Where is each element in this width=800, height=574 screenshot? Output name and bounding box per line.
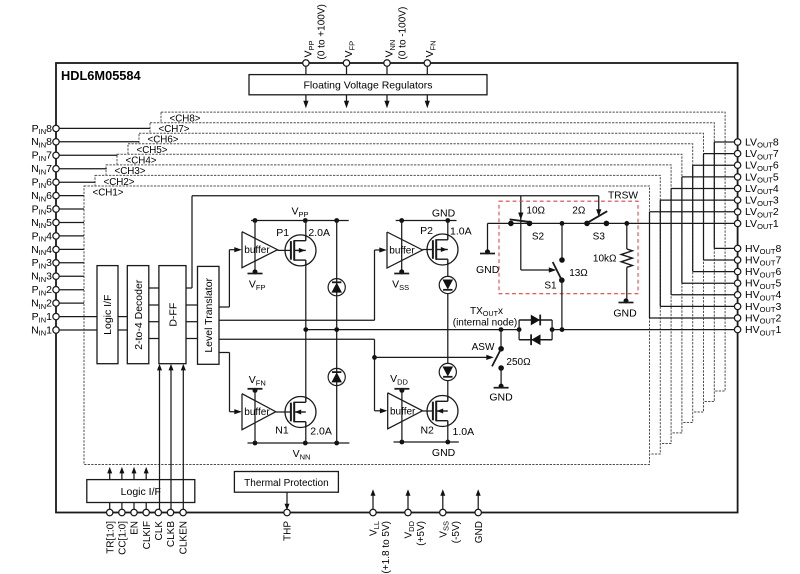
- wire channel CH4 output stub: [670, 189, 672, 295]
- node HVOUT8 output pin: [714, 247, 734, 249]
- wire regulator output arrow: [305, 95, 307, 105]
- wire LT to N2 buffer and ASW: [219, 338, 375, 340]
- channel box CH5: [128, 144, 693, 423]
- svg-text:GND: GND: [613, 308, 637, 320]
- node NIN1 input pin: [59, 329, 97, 331]
- wire regulator output arrow: [426, 95, 428, 105]
- node LVOUT7 output pin: [704, 153, 735, 155]
- wire regulator output arrow: [386, 95, 388, 105]
- wire channel CH5 output stub: [681, 177, 683, 283]
- svg-text:GND: GND: [432, 208, 456, 220]
- switch S2: [508, 221, 514, 227]
- wire CLKEN to D-FF: [182, 369, 184, 513]
- node CC[1:0] pin: [121, 503, 123, 513]
- block 2-to-4 Decoder: [127, 266, 149, 364]
- ground below 10k: [624, 298, 629, 303]
- wire P1 drain to TX node: [305, 266, 307, 330]
- wire main switch line: [488, 222, 735, 224]
- node NIN7 input pin: [59, 168, 107, 170]
- channel box CH8: [161, 112, 725, 391]
- block Thermal Protection: [234, 472, 338, 493]
- node NIN2 input pin: [59, 302, 84, 304]
- svg-text:N2: N2: [420, 425, 434, 437]
- node HVOUT1 output pin: [734, 326, 740, 332]
- svg-text:buffer: buffer: [389, 246, 415, 257]
- node HVOUT4 output pin: [671, 294, 734, 296]
- svg-text:13Ω: 13Ω: [569, 268, 588, 279]
- svg-text:S1: S1: [544, 280, 557, 291]
- diode D3 (down): [439, 276, 456, 293]
- wire regulator output arrow: [346, 95, 348, 105]
- wire control input arrow: [109, 471, 111, 480]
- node VFP terminal: [346, 66, 348, 75]
- svg-text:CC[1:0]: CC[1:0]: [118, 521, 129, 555]
- wire LT to P1 buffer: [219, 306, 229, 308]
- wire P2 drain down: [447, 265, 449, 396]
- node VSS pin: [442, 494, 444, 513]
- wire P2 column to GND rail: [447, 221, 449, 235]
- svg-text:Thermal Protection: Thermal Protection: [244, 478, 328, 489]
- wire CLKB to D-FF: [170, 369, 172, 513]
- node CLKIF pin: [145, 503, 147, 513]
- node VSS: [399, 269, 404, 274]
- svg-text:1.0A: 1.0A: [450, 226, 472, 238]
- node VPP terminal: [305, 66, 307, 75]
- node NIN3 input pin: [59, 275, 84, 277]
- wire D-FF to Level Translator: [186, 304, 198, 306]
- node GND pin: [477, 494, 479, 513]
- svg-text:buffer: buffer: [244, 407, 270, 418]
- block Level Translator: [198, 266, 220, 364]
- switch S1: [560, 221, 565, 226]
- channel box CH3: [106, 165, 671, 444]
- node GND rail (N2 side): [394, 441, 459, 443]
- block Logic I/F (bottom): [87, 480, 195, 503]
- node EN pin: [133, 503, 135, 513]
- node NIN5 input pin: [59, 222, 84, 224]
- svg-text:THP: THP: [283, 521, 294, 541]
- chip outline HDL6M05584: [56, 63, 738, 513]
- wire TX node to N1 drain: [305, 330, 307, 397]
- svg-text:Logic I/F: Logic I/F: [102, 295, 114, 335]
- svg-text:GND: GND: [474, 521, 485, 543]
- node VFP: [253, 269, 258, 274]
- svg-text:HDL6M05584: HDL6M05584: [61, 68, 142, 83]
- wire channel CH8 output stub: [713, 142, 715, 248]
- node NIN4 input pin: [59, 248, 84, 250]
- svg-text:buffer: buffer: [390, 406, 416, 417]
- node PIN5 input pin: [59, 208, 84, 210]
- node VPP rail: [251, 220, 349, 222]
- channel box CH2: [95, 175, 660, 454]
- svg-text:S2: S2: [532, 231, 545, 242]
- svg-text:CLKEN: CLKEN: [179, 521, 190, 554]
- svg-text:(+5V): (+5V): [416, 521, 427, 546]
- svg-text:CLKB: CLKB: [166, 521, 177, 547]
- node CLK pin: [155, 509, 161, 515]
- svg-text:S3: S3: [593, 231, 606, 242]
- transistor N1: [285, 397, 316, 428]
- svg-text:10kΩ: 10kΩ: [593, 253, 617, 264]
- node PIN8 input pin: [59, 127, 150, 129]
- ground below ASW: [499, 384, 504, 389]
- node NIN8 input pin: [59, 141, 139, 143]
- node HVOUT7 output pin: [704, 259, 735, 261]
- node LVOUT5 output pin: [682, 176, 735, 178]
- switch S3: [584, 221, 590, 227]
- svg-text:CLKIF: CLKIF: [142, 521, 153, 549]
- wire channel CH7 output stub: [703, 154, 705, 260]
- svg-text:P2: P2: [420, 225, 433, 237]
- wire channel CH2 output stub: [649, 212, 651, 318]
- node TR[1:0] pin: [109, 503, 111, 513]
- node HVOUT3 output pin: [660, 305, 734, 307]
- node TXOUT internal line: [306, 329, 519, 331]
- svg-text:Level Translator: Level Translator: [203, 277, 215, 352]
- wire Decoder to D-FF: [149, 287, 159, 289]
- node CLKB pin: [167, 509, 173, 515]
- channel box CH6: [139, 133, 704, 412]
- svg-text:Floating Voltage Regulators: Floating Voltage Regulators: [304, 80, 433, 92]
- wire diode column left: [336, 221, 338, 444]
- transistor P2: [427, 234, 458, 265]
- wire control input arrow: [145, 471, 147, 480]
- diode pair D5/D6: [518, 320, 520, 340]
- wire N1 source to VNN rail: [305, 428, 307, 444]
- wire P1 source to VPP rail: [305, 221, 307, 236]
- node THP pin: [286, 492, 288, 506]
- svg-text:(internal node): (internal node): [453, 317, 517, 328]
- wire S3 control: [598, 196, 600, 212]
- wire LogicIF to Decoder: [118, 316, 127, 318]
- node HVOUT5 output pin: [682, 282, 735, 284]
- block Logic I/F (channel): [97, 266, 118, 364]
- node PIN4 input pin: [59, 235, 84, 237]
- node LVOUT3 output pin: [660, 199, 734, 201]
- svg-text:GND: GND: [432, 447, 456, 459]
- wire channel CH6 output stub: [692, 165, 694, 271]
- node VFN terminal: [426, 66, 428, 75]
- transistor N2: [427, 396, 458, 427]
- wire LT to N1 buffer: [219, 352, 230, 354]
- wire LT to P2 buffer: [219, 319, 375, 321]
- svg-text:N1: N1: [275, 425, 289, 437]
- resistor 10k: [624, 221, 629, 226]
- node PIN2 input pin: [59, 289, 84, 291]
- wire TRSW control from D-FF: [186, 287, 192, 289]
- diode D2 (up): [328, 368, 345, 385]
- node VLL pin: [372, 494, 374, 513]
- svg-text:Logic I/F: Logic I/F: [121, 486, 161, 498]
- node CLKEN pin: [180, 509, 186, 515]
- block D-FF: [159, 266, 186, 364]
- node LVOUT4 output pin: [671, 188, 734, 190]
- node VDD pin: [407, 494, 409, 513]
- wire S2/S1 control: [520, 196, 522, 270]
- ground stub left of TRSW: [487, 223, 489, 251]
- wire control input arrow: [121, 471, 123, 480]
- svg-text:2-to-4 Decoder: 2-to-4 Decoder: [133, 279, 145, 350]
- node GND rail (P2 side): [396, 220, 457, 222]
- svg-text:(0 to +100V): (0 to +100V): [317, 4, 328, 59]
- node LVOUT8 output pin: [714, 141, 734, 143]
- svg-text:10Ω: 10Ω: [526, 206, 545, 217]
- svg-text:EN: EN: [130, 521, 141, 535]
- node HVOUT2 output pin: [650, 317, 735, 319]
- svg-text:P1: P1: [276, 227, 289, 239]
- wire CLK to D-FF: [159, 369, 161, 513]
- node PIN7 input pin: [59, 154, 117, 156]
- switch ASW: [500, 330, 502, 349]
- TRSW network box: [499, 201, 638, 294]
- svg-text:TRSW: TRSW: [608, 190, 638, 201]
- buffer U1 (P1 driver): [254, 221, 256, 272]
- buffer U2 (P2 driver): [401, 221, 403, 272]
- svg-text:(-5V): (-5V): [451, 521, 462, 543]
- svg-text:CLK: CLK: [154, 521, 165, 541]
- svg-text:2Ω: 2Ω: [572, 206, 586, 217]
- node HVOUT6 output pin: [693, 271, 735, 273]
- channel box CH7: [150, 123, 714, 402]
- svg-text:ASW: ASW: [472, 342, 495, 353]
- block Floating Voltage Regulators: [249, 75, 487, 95]
- channel box CH1: [84, 186, 650, 465]
- node LVOUT6 output pin: [693, 164, 735, 166]
- svg-text:<CH1>: <CH1>: [92, 187, 123, 198]
- svg-text:1.0A: 1.0A: [453, 426, 475, 438]
- diode D4 (down): [439, 363, 456, 380]
- svg-text:250Ω: 250Ω: [506, 357, 531, 368]
- transistor P1: [285, 235, 316, 266]
- wire N2 source to GND rail: [447, 427, 449, 443]
- svg-text:D-FF: D-FF: [168, 303, 180, 327]
- svg-text:(+1.8 to 5V): (+1.8 to 5V): [381, 521, 392, 574]
- node VNN terminal: [386, 66, 388, 75]
- diode D1 (up): [328, 279, 345, 296]
- svg-text:2.0A: 2.0A: [308, 227, 330, 239]
- wire channel CH3 output stub: [659, 200, 661, 306]
- svg-text:GND: GND: [476, 264, 500, 276]
- channel box CH4: [117, 154, 682, 433]
- wire ASW control: [375, 356, 491, 358]
- svg-text:buffer: buffer: [244, 245, 270, 256]
- node PIN6 input pin: [59, 181, 96, 183]
- node LVOUT2 output pin: [650, 211, 735, 213]
- node PIN1 input pin: [59, 316, 97, 318]
- node NIN6 input pin: [59, 195, 84, 197]
- svg-text:TR[1:0]: TR[1:0]: [105, 521, 116, 554]
- node LVOUT1 output pin: [734, 220, 740, 226]
- node VNN rail: [248, 442, 350, 444]
- wire control input arrow: [133, 471, 135, 480]
- svg-text:GND: GND: [489, 392, 513, 404]
- svg-text:(0 to -100V): (0 to -100V): [398, 7, 409, 60]
- node PIN3 input pin: [59, 262, 84, 264]
- svg-text:2.0A: 2.0A: [310, 426, 332, 438]
